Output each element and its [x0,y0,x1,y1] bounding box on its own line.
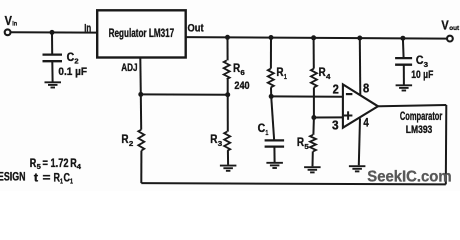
svg-text:8: 8 [363,82,369,96]
svg-text:ADJ: ADJ [121,62,137,74]
wire pin 4 [359,118,360,165]
minus input sign [346,93,353,95]
svg-text:5: 5 [304,142,308,151]
svg-text:1: 1 [284,72,287,81]
capacitor C3 plates [395,58,412,65]
wire C2 stem [51,32,53,54]
svg-text:LM393: LM393 [406,124,433,136]
capacitor C1 plates [265,140,285,146]
resistor R6 [227,37,229,60]
node junction C2 tap [50,30,55,35]
svg-text:SeekIC.com: SeekIC.com [367,168,451,185]
node junction R1/C1/pin2 [269,94,274,99]
resistor R1 [270,38,272,69]
svg-text:2: 2 [74,56,78,65]
svg-text:2: 2 [333,83,339,97]
ground of C3 [396,85,413,90]
node junction R6/R3 [225,92,230,97]
wire output rail [186,37,447,39]
svg-text:1: 1 [265,128,268,137]
svg-text:Out: Out [188,23,205,35]
node junction C3 tap [400,36,405,41]
ground of C1 [266,163,283,168]
svg-text:= 1.72: = 1.72 [43,158,69,170]
ground of R3 [220,166,237,171]
svg-text:Comparator: Comparator [400,110,443,123]
capacitor C2 plates [43,55,63,62]
wire comparator output [378,105,446,106]
wire ADJ pin down [139,58,142,95]
resistor R5 [312,118,315,135]
node junction R4 top [311,35,316,40]
wire Vin to regulator In [11,31,97,33]
node junction R4/R5/pin3 [311,115,316,120]
svg-text:R: R [233,61,240,75]
svg-text:R: R [210,132,217,146]
svg-text:1: 1 [70,177,73,186]
svg-text:5: 5 [37,162,41,171]
svg-text:t: t [34,172,38,184]
regulator U1 LM317 box [97,10,186,57]
svg-text:C: C [416,53,424,67]
terminal Vout [447,36,453,42]
svg-text:In: In [84,22,91,34]
terminal Vin [5,29,11,35]
node junction R6 top [225,35,230,40]
svg-text:3: 3 [424,60,428,69]
svg-text:Regulator LM317: Regulator LM317 [109,26,175,40]
svg-text:3: 3 [218,139,222,148]
ground of R5 [304,167,321,172]
wire to pin 2 [271,95,343,97]
wire ADJ node to R6/R3 node [141,93,228,95]
svg-text:4: 4 [363,115,369,129]
svg-text:0.1 µF: 0.1 µF [58,66,87,78]
wire feedback bottom [141,183,446,184]
svg-text:C: C [258,121,266,135]
svg-text:6: 6 [240,68,244,77]
resistor R2 [140,94,142,129]
node junction pin8 [357,36,362,41]
resistor R3 [227,95,229,132]
capacitor C1 [271,96,274,139]
op-amp U2 comparator triangle [343,84,378,127]
capacitor C3 [402,38,405,58]
svg-text:3: 3 [332,118,339,132]
wire C2 to ground [51,61,53,81]
wire pin 8 [359,38,362,95]
wire to pin 3 [314,116,343,118]
svg-text:C: C [67,50,75,64]
svg-text:=: = [43,172,51,184]
svg-text:R: R [319,65,326,79]
resistor R4 [313,38,315,69]
svg-text:R: R [276,65,283,79]
svg-text:10 µF: 10 µF [411,69,433,81]
svg-text:R: R [121,132,128,146]
plus input sign [344,111,353,120]
svg-text:2: 2 [129,139,133,148]
svg-text:V: V [5,13,13,28]
ground of pin4 [349,166,366,171]
svg-text:240: 240 [234,80,249,92]
svg-text:out: out [449,25,459,32]
svg-text:DESIGN: DESIGN [0,171,26,183]
svg-text:V: V [441,17,449,32]
wire feedback right side [445,105,448,184]
node junction ADJ/R2 [138,92,143,97]
svg-text:R: R [297,135,304,149]
svg-text:in: in [12,21,17,28]
node junction R1 top [269,35,274,40]
ground of C2 [45,82,62,87]
